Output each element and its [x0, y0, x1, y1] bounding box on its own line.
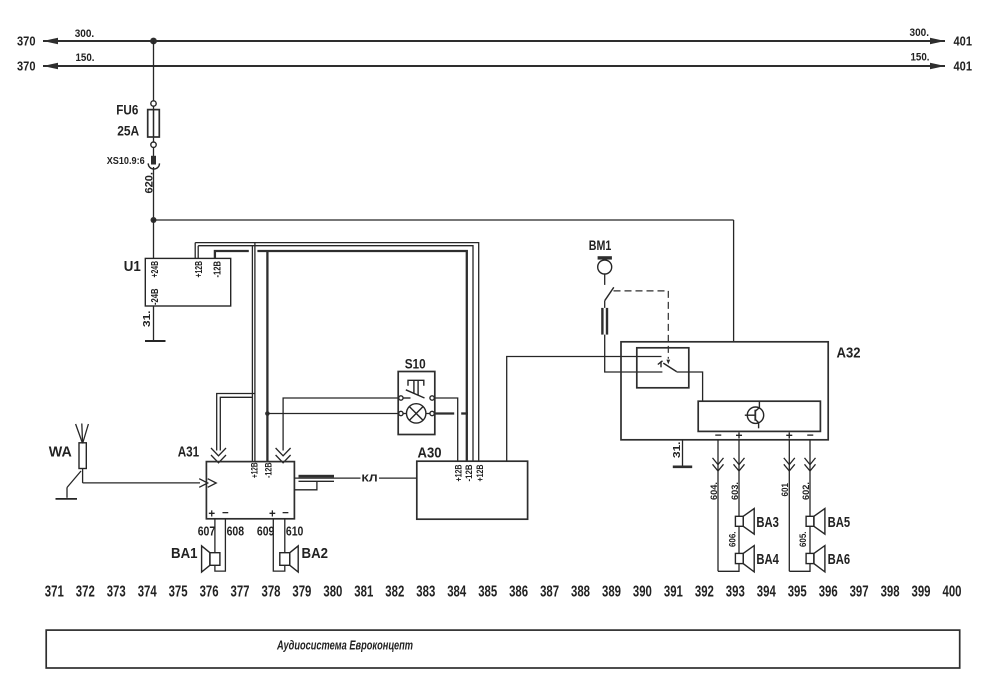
arrow into A31 top left — [211, 448, 226, 463]
svg-text:386: 386 — [509, 584, 528, 601]
wire A32 to ground — [682, 440, 684, 466]
wire U1 +12B pair up (inner) — [197, 246, 199, 259]
arrow into A31 top right — [276, 448, 291, 463]
wire antenna to ground — [67, 471, 81, 498]
svg-text:609: 609 — [257, 524, 275, 539]
wire -12B thick bus continuation after crossing gap — [257, 251, 466, 461]
wire label KL — [361, 472, 380, 485]
svg-text:150.: 150. — [911, 51, 930, 63]
svg-text:-12B: -12B — [464, 464, 475, 481]
coordinate scale numbers 371-400 — [45, 584, 962, 601]
svg-text:A30: A30 — [418, 445, 442, 462]
svg-text:393: 393 — [726, 584, 745, 601]
wire S10 lamp to -12B thick (right part after gap) — [461, 412, 468, 414]
lamp inside S10 — [403, 404, 430, 423]
svg-text:S10: S10 — [405, 355, 426, 371]
speaker BA1 — [202, 546, 220, 572]
wire -12B thick branch to A31 — [266, 251, 268, 462]
svg-text:605.: 605. — [798, 532, 808, 548]
wire rail to fuse — [153, 41, 155, 101]
svg-text:383: 383 — [416, 584, 435, 601]
svg-text:395: 395 — [788, 584, 807, 601]
wire antenna to A31 input — [83, 482, 200, 484]
wire BA3 to BA4 — [738, 526, 740, 553]
speaker BA6 — [806, 546, 825, 572]
svg-text:+12B: +12B — [475, 464, 486, 481]
svg-text:382: 382 — [385, 584, 404, 601]
relay lever — [663, 363, 676, 372]
wire branch pair to A31 left arrow (inner) — [220, 397, 252, 450]
title block — [46, 630, 960, 668]
wire junction to U1 +24B pin — [153, 220, 155, 258]
wire +12B bus outer horizontal — [195, 243, 479, 462]
svg-text:-12B: -12B — [212, 261, 223, 278]
wire -12B thick bus from U1 — [215, 251, 249, 258]
svg-text:610: 610 — [286, 524, 304, 539]
jack connector (mic plug) — [601, 308, 608, 335]
svg-text:380: 380 — [323, 584, 342, 601]
svg-text:300.: 300. — [75, 28, 95, 40]
svg-text:375: 375 — [169, 584, 188, 601]
wire branch pair to A31 left arrow (outer) — [217, 394, 255, 451]
net 300 power rail (wire) — [43, 38, 945, 44]
svg-text:Аудиосистема Евроконцепт: Аудиосистема Евроконцепт — [276, 638, 413, 652]
wire +12B bus inner horizontal — [198, 246, 473, 462]
svg-text:384: 384 — [447, 584, 466, 601]
svg-text:BA2: BA2 — [302, 545, 329, 562]
svg-text:КЛ: КЛ — [362, 473, 378, 485]
relay box inside A32 — [637, 348, 689, 388]
wire U1 +12B pair up (outer) — [194, 243, 196, 259]
svg-text:400: 400 — [943, 584, 962, 601]
wire S10 switch to A31 right arrow — [283, 398, 399, 451]
arrow into A31 left (antenna input) — [199, 479, 216, 488]
svg-text:608: 608 — [227, 524, 245, 539]
svg-text:394: 394 — [757, 584, 776, 601]
svg-text:399: 399 — [912, 584, 931, 601]
svg-text:374: 374 — [138, 584, 157, 601]
svg-text:U1: U1 — [124, 259, 141, 275]
svg-text:392: 392 — [695, 584, 714, 601]
wire relay output to amp — [677, 372, 703, 401]
wire mic to switch contact — [604, 274, 606, 285]
svg-text:BM1: BM1 — [589, 237, 612, 253]
svg-text:388: 388 — [571, 584, 590, 601]
svg-text:+24B: +24B — [150, 261, 161, 278]
svg-text:371: 371 — [45, 584, 64, 601]
junction lamp wire on -12B branch — [265, 411, 270, 416]
svg-text:378: 378 — [262, 584, 281, 601]
switch S10 (key switch with lamp) — [398, 372, 435, 435]
wire switch to jack — [604, 301, 606, 308]
svg-text:601: 601 — [780, 483, 790, 497]
svg-text:401: 401 — [954, 35, 973, 49]
svg-text:376: 376 — [200, 584, 219, 601]
connector XS10.9:6 — [148, 156, 159, 169]
svg-text:+12B: +12B — [454, 464, 465, 481]
wire 604 minus output — [717, 440, 719, 572]
relay fixed contact post — [658, 361, 663, 368]
speaker BA4 — [735, 546, 754, 572]
svg-text:A32: A32 — [837, 345, 861, 362]
net 150 power rail (wire) — [43, 63, 945, 69]
svg-text:603.: 603. — [730, 482, 740, 500]
node 401 labels — [954, 35, 973, 74]
svg-text:385: 385 — [478, 584, 497, 601]
wire drop to A32 top — [733, 220, 735, 342]
ground at U1 — [145, 340, 166, 342]
wire A31 - to BA2 — [284, 519, 286, 553]
arrow on wire 602 — [805, 458, 816, 471]
svg-text:372: 372 — [76, 584, 95, 601]
junction at 620 node — [151, 217, 157, 223]
svg-text:-12B: -12B — [264, 462, 275, 478]
svg-text:397: 397 — [850, 584, 869, 601]
speaker BA3 — [735, 509, 754, 535]
speaker BA2 — [280, 546, 298, 572]
svg-text:BA6: BA6 — [828, 551, 851, 568]
ground at antenna — [56, 498, 78, 500]
antenna WA — [76, 424, 89, 483]
wire BA6 bottom to 601 — [789, 564, 810, 572]
svg-text:389: 389 — [602, 584, 621, 601]
svg-text:BA4: BA4 — [756, 551, 779, 568]
arrow on wire 604 — [713, 458, 724, 471]
svg-text:XS10.9:6: XS10.9:6 — [107, 155, 145, 167]
svg-text:373: 373 — [107, 584, 126, 601]
amplifier unit A32 — [621, 342, 828, 440]
wire S10 lamp to -12B branch — [267, 413, 398, 415]
wire S10 switch to A30 +12B — [434, 398, 457, 461]
wire KL coax to A30 — [294, 477, 416, 479]
svg-text:−: − — [282, 508, 289, 520]
svg-text:401: 401 — [954, 60, 973, 74]
wire U1 -24B to ground — [153, 306, 155, 341]
wire A30 to A32 relay contact — [507, 357, 662, 462]
svg-text:31.: 31. — [141, 310, 153, 327]
mechanical link dashed to relay — [614, 291, 671, 364]
svg-text:WA: WA — [49, 444, 72, 461]
svg-text:BA3: BA3 — [756, 514, 779, 531]
wire S10 lamp to -12B thick (left part) — [434, 412, 454, 414]
svg-text:FU6: FU6 — [116, 102, 138, 118]
mic switch lever — [605, 287, 614, 300]
svg-text:150.: 150. — [76, 52, 95, 64]
svg-text:31.: 31. — [671, 441, 683, 458]
svg-text:381: 381 — [354, 584, 373, 601]
coax output symbol on A31 right — [294, 475, 334, 490]
speaker BA5 — [806, 509, 825, 535]
svg-text:A31: A31 — [178, 444, 200, 461]
svg-text:387: 387 — [540, 584, 559, 601]
svg-text:BA1: BA1 — [171, 545, 198, 562]
svg-text:370: 370 — [17, 35, 36, 49]
svg-text:379: 379 — [292, 584, 311, 601]
svg-text:BA5: BA5 — [828, 514, 851, 531]
wire jack to relay contact — [605, 335, 663, 372]
antenna amplifier A31 — [206, 462, 294, 519]
svg-text:391: 391 — [664, 584, 683, 601]
svg-text:−: − — [807, 428, 814, 442]
wire 603 plus output — [738, 440, 740, 517]
svg-text:−: − — [715, 428, 722, 442]
svg-text:+: + — [208, 509, 215, 521]
wire 602 minus output — [809, 440, 811, 517]
transistor symbol in amp — [745, 401, 764, 428]
wire fuse to connector — [153, 147, 155, 156]
wire connector to junction — [153, 167, 155, 220]
wire 601 plus output — [788, 440, 790, 572]
amplifier-converter U1 — [145, 258, 230, 306]
wire +12B branch pair down to A31 (left line) — [251, 246, 253, 462]
svg-text:25A: 25A — [117, 123, 139, 139]
power amplifier box inside A32 — [698, 401, 820, 431]
wire junction to A32 (horizontal) — [154, 219, 734, 221]
microphone BM1 — [598, 256, 612, 274]
wire A31 - loop to BA1 bottom — [215, 519, 226, 571]
svg-text:+12B: +12B — [249, 462, 260, 478]
svg-text:+: + — [269, 509, 276, 521]
svg-text:−: − — [222, 508, 229, 520]
svg-text:398: 398 — [881, 584, 900, 601]
junction on rail 300 — [150, 38, 157, 45]
ground at A32 — [673, 465, 692, 468]
wire BA4 bottom to 604 — [718, 564, 739, 572]
svg-text:390: 390 — [633, 584, 652, 601]
svg-text:606.: 606. — [727, 532, 737, 548]
svg-text:+12B: +12B — [194, 261, 205, 278]
wire BA5 to BA6 — [809, 526, 811, 553]
arrow on wire 601 — [784, 458, 795, 471]
svg-text:370: 370 — [17, 60, 36, 74]
wire A31 + loop to BA2 bottom — [273, 519, 285, 571]
svg-text:-24B: -24B — [150, 289, 161, 306]
svg-text:377: 377 — [231, 584, 250, 601]
wire A31 + to BA1 — [214, 519, 216, 553]
svg-text:300.: 300. — [910, 27, 930, 39]
svg-text:604.: 604. — [709, 482, 719, 500]
arrow on wire 603 — [734, 458, 745, 471]
node 370 labels — [17, 35, 36, 74]
wire +12B branch pair down to A31 (right line) — [254, 243, 256, 462]
svg-text:396: 396 — [819, 584, 838, 601]
svg-text:602.: 602. — [801, 482, 811, 500]
radio receiver A30 — [417, 461, 528, 519]
svg-text:607: 607 — [198, 524, 216, 539]
fuse FU6 25A — [148, 101, 160, 148]
